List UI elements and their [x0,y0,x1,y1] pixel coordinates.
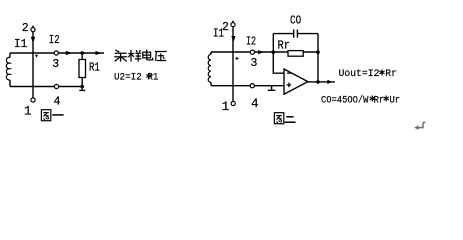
svg-text:I2: I2 [246,36,256,49]
svg-text:R1: R1 [89,60,100,74]
svg-text:Rr: Rr [278,40,291,53]
svg-text:2: 2 [22,22,29,35]
svg-text:U2=I2 R1: U2=I2 R1 [114,73,159,84]
svg-text:3: 3 [52,58,59,71]
svg-text:Uout=I2 Rr: Uout=I2 Rr [339,69,398,80]
svg-text:CO: CO [290,14,301,27]
svg-text:4: 4 [251,97,259,111]
svg-text:3: 3 [251,57,258,70]
svg-text:CO=45OO/W Rr Ur: CO=45OO/W Rr Ur [321,95,400,107]
svg-text:I1: I1 [14,38,27,51]
svg-text:1: 1 [24,105,32,119]
svg-text:4: 4 [54,95,61,108]
svg-text:I2: I2 [49,34,60,47]
svg-text:1: 1 [222,100,230,114]
svg-text:I1: I1 [213,27,224,40]
